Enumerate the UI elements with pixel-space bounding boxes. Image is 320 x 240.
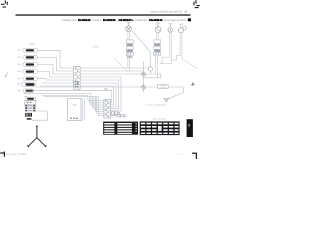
wire short stub below fuse7 <box>24 95 28 97</box>
node N3 <box>148 66 152 73</box>
inline connector box on B1 <box>158 84 168 88</box>
fuse F1 <box>17 49 37 53</box>
bus line B5 <box>44 96 98 98</box>
svg-text:1 - conn. principale (D): 1 - conn. principale (D) <box>145 103 166 106</box>
fuse F2 <box>17 56 37 60</box>
svg-text:-: - <box>116 20 117 22</box>
bus line B3 <box>24 93 91 95</box>
ignition switch wire <box>32 111 48 120</box>
wires S2 down <box>156 56 158 78</box>
wire staircase fuses to connector CN1 <box>38 50 74 86</box>
inline connector P2 <box>111 115 127 117</box>
bottom-left registration mark <box>0 152 4 157</box>
fuse F7 <box>17 89 33 92</box>
lamp L4 pair <box>178 26 186 32</box>
switch S1 <box>126 40 133 58</box>
bus line B2 <box>33 90 112 102</box>
svg-text:5JG-28199-F0 +: 5JG-28199-F0 + <box>119 20 134 22</box>
node N2 <box>142 85 146 89</box>
lamp L2 <box>155 24 161 33</box>
connector CN1 <box>74 66 81 89</box>
diagonal D2 <box>114 58 128 72</box>
lamp L3 <box>168 24 173 32</box>
wires lamp L2 to switch S2 <box>157 32 159 40</box>
inline connector P1 <box>111 112 120 114</box>
wires right of ECU box <box>83 98 85 120</box>
fuse F5 <box>17 77 37 81</box>
caption line <box>62 19 186 22</box>
star symbol (wye junction) <box>27 126 46 148</box>
table T1 <box>103 122 138 135</box>
svg-text:5JG-28199-E0: 5JG-28199-E0 <box>78 20 91 22</box>
diagonal D1 <box>132 31 150 67</box>
wires S1 down <box>128 58 129 71</box>
svg-text:cablage sch.: cablage sch. <box>62 20 77 22</box>
lamp L1 <box>126 23 132 32</box>
svg-text:FUSE: FUSE <box>29 43 35 45</box>
fuse F4 <box>17 70 37 74</box>
ignition switch <box>25 97 36 120</box>
wires CN1 right exits <box>80 68 161 111</box>
svg-text:N: N <box>159 127 161 131</box>
bottom-right registration mark <box>192 153 197 159</box>
connector CN2 <box>104 99 111 118</box>
small mark near right edge <box>192 82 195 85</box>
fuse F6 <box>17 82 36 86</box>
wires L3 down <box>159 32 171 64</box>
top-left registration mark <box>1 1 7 8</box>
black page tab <box>187 119 193 137</box>
bus line B4 <box>42 94 88 96</box>
node N1 <box>142 72 146 76</box>
diagonal D3 <box>182 59 198 69</box>
label above L3 <box>169 22 173 25</box>
bus line B1 <box>36 87 184 99</box>
svg-text:wiring diagram general all: wiring diagram general all <box>164 19 186 22</box>
top rule <box>16 14 191 15</box>
connector CN1 bottom pin hatches <box>75 81 79 87</box>
svg-text:CDI unit check: CDI unit check <box>153 118 167 121</box>
wire corner from node A horizontal <box>144 74 161 78</box>
small mark left margin <box>5 73 8 78</box>
wire staircase into CN2 <box>88 94 104 116</box>
svg-text:/ impianto: / impianto <box>92 19 103 22</box>
label above L1 <box>127 21 131 24</box>
top-right registration mark <box>194 0 200 7</box>
ECU box <box>67 98 81 120</box>
svg-text:8: 8 <box>188 124 190 128</box>
table T2 <box>140 121 180 135</box>
wire stub above L4 <box>180 25 182 28</box>
svg-text:ELEC. SYSTEM: ELEC. SYSTEM <box>12 154 27 156</box>
svg-text:2CB-8G: 2CB-8G <box>92 46 99 48</box>
svg-text:5JG-28199-S0: 5JG-28199-S0 <box>103 20 116 22</box>
fuse F3 <box>17 63 37 67</box>
svg-text:— — —: — — — <box>175 154 183 156</box>
svg-text:5JG-28199-G0: 5JG-28199-G0 <box>149 20 163 22</box>
svg-text:schema elettrico generale (D): schema elettrico generale (D) <box>151 10 183 13</box>
wires L4 down <box>171 33 182 60</box>
label above L4 <box>179 23 183 26</box>
label above L2 <box>156 22 160 25</box>
switch S2 <box>154 40 161 56</box>
vertical trunk to nodes <box>143 62 145 93</box>
arrow terminal <box>164 98 169 102</box>
caption end square <box>188 18 191 21</box>
svg-text:–8: –8 <box>184 11 187 14</box>
wires lamp L1 to switch S1 <box>128 32 129 40</box>
